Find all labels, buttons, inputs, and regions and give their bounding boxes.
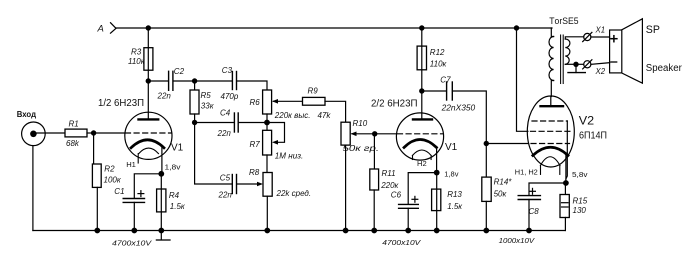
triode V1b plate bar xyxy=(413,118,432,120)
junction secondary ground node xyxy=(573,62,578,67)
svg-text:Speaker: Speaker xyxy=(646,63,683,74)
transformer core xyxy=(561,35,564,84)
wire C3 right to R6 top xyxy=(237,81,267,90)
wire V1b grid feed xyxy=(375,133,397,135)
svg-text:2/2 6Н23П: 2/2 6Н23П xyxy=(371,98,418,109)
svg-text:X1: X1 xyxy=(595,26,606,35)
junction rail R8 xyxy=(264,228,270,234)
wire R3 lead through body xyxy=(147,28,149,81)
pentode V2 g1 dashes xyxy=(531,143,570,145)
junction cathode V1b node xyxy=(434,170,440,176)
wire C2 left xyxy=(148,80,168,82)
potentiometer R10 labels xyxy=(343,119,380,153)
arrowhead R8 wiper xyxy=(257,182,263,187)
ground symbol stage1 xyxy=(156,231,170,241)
svg-text:R10: R10 xyxy=(353,119,368,128)
resistor R13 xyxy=(432,189,441,211)
capacitor C8 plus sign xyxy=(530,188,536,194)
wire X2 to speaker xyxy=(591,63,610,65)
wire C6 bottom xyxy=(407,208,409,230)
wire bottom ground rail xyxy=(33,230,566,232)
svg-text:130: 130 xyxy=(573,206,587,215)
triode V1a grid dashes xyxy=(126,132,172,134)
resistor R15 lead top xyxy=(564,183,566,195)
junction rail R14 xyxy=(483,228,489,234)
resistor R9 xyxy=(303,97,326,105)
resistor R3 xyxy=(144,48,153,70)
wire R7 bottom to R8 top xyxy=(266,155,268,173)
svg-text:22п: 22п xyxy=(218,191,233,200)
connector X2 xyxy=(583,60,592,69)
wire X2 left xyxy=(576,63,584,65)
speaker plus terminal xyxy=(611,36,617,42)
capacitor C4 labels xyxy=(217,109,232,139)
svg-text:R3: R3 xyxy=(131,48,142,57)
capacitor C8 electrolytic xyxy=(518,196,540,200)
resistor R12 labels xyxy=(430,48,448,69)
resistor R4 xyxy=(157,189,166,212)
wire primary top lead xyxy=(551,28,553,37)
wire R12 lead through xyxy=(421,28,423,91)
wire secondary bottom xyxy=(565,63,576,65)
svg-text:V2: V2 xyxy=(579,115,594,127)
svg-text:Вход: Вход xyxy=(17,110,36,119)
arrowhead R10 wiper xyxy=(351,132,357,137)
wire R1 right xyxy=(87,132,94,134)
svg-text:5,8v: 5,8v xyxy=(572,170,588,179)
svg-text:100к: 100к xyxy=(104,176,122,185)
resistor R4 labels xyxy=(169,191,186,211)
triode V1b envelope xyxy=(396,113,443,160)
resistor R14 xyxy=(482,177,491,201)
svg-text:1.5к: 1.5к xyxy=(447,202,463,211)
junction R6 bottom R7 top xyxy=(264,120,270,126)
resistor R2 labels xyxy=(104,164,122,184)
junction rail R13 xyxy=(434,228,440,234)
svg-text:C2: C2 xyxy=(174,67,185,76)
svg-text:R1: R1 xyxy=(69,120,79,129)
potentiometer R7 xyxy=(263,130,272,155)
svg-text:R5: R5 xyxy=(201,91,212,100)
junction anode V1a node xyxy=(146,78,151,83)
wire C1 bottom xyxy=(133,202,135,230)
svg-text:68k: 68k xyxy=(66,139,80,148)
resistor R15 labels xyxy=(573,197,588,216)
resistor R6 lead bottom xyxy=(266,114,268,123)
svg-text:R9: R9 xyxy=(308,87,319,96)
resistor R5 lead bottom xyxy=(194,114,196,123)
resistor R11 xyxy=(370,169,379,190)
junction C4 left node xyxy=(192,120,197,125)
speaker box xyxy=(610,30,622,73)
triode V1a plate bar xyxy=(139,118,159,120)
svg-text:R11: R11 xyxy=(382,169,396,178)
capacitor C3 xyxy=(232,72,236,90)
pentode V2 cathode arc xyxy=(533,147,568,155)
junction anode V1b node xyxy=(419,88,424,93)
junction rail C1 xyxy=(131,228,137,234)
wire R7 wiper loop xyxy=(267,123,285,143)
potentiometer R6 labels xyxy=(250,98,311,120)
resistor R4 lead through xyxy=(160,174,162,231)
capacitor C4 xyxy=(234,113,238,132)
wire R10 bottom xyxy=(345,145,347,230)
svg-text:R15: R15 xyxy=(573,197,588,206)
junction R5 top node xyxy=(192,78,197,83)
pentode V2 envelope xyxy=(527,96,574,167)
resistor R1 xyxy=(65,129,87,137)
triode V1b anode lead xyxy=(421,91,423,119)
node A xyxy=(111,23,117,34)
speaker cone xyxy=(622,19,643,83)
wire primary bottom lead to V2 anode xyxy=(551,81,554,107)
wire R15 bottom xyxy=(564,218,566,231)
junction R3 top xyxy=(146,25,151,30)
svg-text:V1: V1 xyxy=(171,142,184,153)
ground symbol secondary xyxy=(568,64,585,72)
wire cathode to C6 xyxy=(408,173,437,204)
junction cathode V1a node xyxy=(158,171,164,177)
svg-text:R6: R6 xyxy=(250,98,261,107)
svg-text:470p: 470p xyxy=(221,92,239,101)
svg-text:6П14П: 6П14П xyxy=(579,130,607,142)
potentiometer R10 xyxy=(341,122,350,145)
capacitor C2 xyxy=(169,71,173,90)
svg-text:4700x10V: 4700x10V xyxy=(112,238,152,247)
resistor R5 xyxy=(190,90,199,114)
junction R12 top xyxy=(419,25,424,30)
wire g2 feed from rail xyxy=(517,28,528,131)
triode V1a envelope xyxy=(125,112,172,159)
wire R8 bottom xyxy=(266,196,268,230)
svg-text:1,8v: 1,8v xyxy=(444,170,458,179)
wire V2 grid feed xyxy=(486,143,528,145)
potentiometer R8 labels xyxy=(249,168,311,198)
svg-text:C1: C1 xyxy=(114,187,124,196)
svg-text:C6: C6 xyxy=(391,191,402,200)
svg-text:110к: 110к xyxy=(128,57,146,66)
wire R11 lead top xyxy=(373,134,375,169)
triode V1a heater arch xyxy=(139,148,159,154)
wire R10 wiper xyxy=(352,133,375,135)
resistor R11 labels xyxy=(380,169,399,190)
pentode V2 cathode lead xyxy=(565,155,567,183)
capacitor C6 electrolytic xyxy=(399,204,419,208)
input connector Вход xyxy=(22,122,46,146)
svg-text:R7: R7 xyxy=(250,140,261,149)
potentiometer R7 labels xyxy=(250,140,304,160)
wire R11 bottom xyxy=(373,190,375,231)
svg-text:22n: 22n xyxy=(157,91,172,100)
wire cathode to C8 xyxy=(529,183,566,195)
capacitor C6 plus sign xyxy=(412,196,418,202)
svg-text:C3: C3 xyxy=(222,66,233,75)
resistor R13 lead through xyxy=(436,173,438,231)
capacitor C7 xyxy=(447,82,453,100)
pentode V2 g3 dashes xyxy=(532,120,567,122)
pentode V2 plate bar xyxy=(541,105,564,107)
wire V1a grid feed xyxy=(94,132,125,134)
wire C4 left xyxy=(195,122,235,124)
resistor R12 xyxy=(417,46,426,70)
svg-text:A: A xyxy=(97,24,104,35)
svg-text:SP: SP xyxy=(646,24,660,36)
svg-text:22k сред.: 22k сред. xyxy=(276,189,312,198)
resistor R3 labels xyxy=(128,48,146,67)
svg-text:50к гр.: 50к гр. xyxy=(343,144,380,153)
junction V1b grid node xyxy=(372,131,377,136)
svg-text:220к выс.: 220к выс. xyxy=(274,111,311,120)
svg-text:110к: 110к xyxy=(430,60,448,69)
junction g2 feed top xyxy=(514,25,519,30)
wire C2 right xyxy=(173,80,195,82)
wire R9 right to R10 top xyxy=(325,101,346,122)
potentiometer R6 xyxy=(263,90,272,114)
svg-text:V1: V1 xyxy=(445,142,458,153)
wire input to R1 xyxy=(33,132,65,134)
wire R14 bottom xyxy=(485,201,487,230)
svg-text:1000x10V: 1000x10V xyxy=(499,236,535,245)
svg-text:C5: C5 xyxy=(220,174,231,183)
svg-text:C7: C7 xyxy=(440,76,451,85)
svg-text:1,8v: 1,8v xyxy=(165,163,181,172)
transformer secondary winding xyxy=(565,39,570,64)
wire cathode to C1 xyxy=(134,174,161,198)
wire R2 lead top xyxy=(93,133,95,164)
svg-text:C8: C8 xyxy=(529,207,540,216)
capacitor C1 electrolytic xyxy=(123,199,144,203)
junction cathode V2 node xyxy=(563,180,569,186)
resistor R14 labels xyxy=(494,178,513,199)
resistor R9 labels xyxy=(308,87,332,121)
resistor R7 lead top xyxy=(266,123,268,131)
wire C8 bottom xyxy=(528,200,530,231)
junction rail R11 xyxy=(371,228,377,234)
svg-text:Н2: Н2 xyxy=(417,159,427,168)
capacitor C2 labels xyxy=(157,67,185,100)
triode V1a cathode arc xyxy=(131,140,164,148)
svg-text:Н1: Н1 xyxy=(126,160,136,169)
svg-text:4700x10V: 4700x10V xyxy=(382,238,421,247)
junction rail R2 xyxy=(94,228,100,234)
triode V1b heater arch xyxy=(412,150,431,156)
triode V1b heater legs xyxy=(413,156,432,160)
resistor R2 xyxy=(92,164,101,187)
svg-text:50к: 50к xyxy=(494,190,508,199)
resistor R15 inner marks xyxy=(562,203,569,207)
svg-text:Н1, Н2: Н1, Н2 xyxy=(515,168,538,177)
svg-text:ТorSE5: ТorSE5 xyxy=(549,16,578,26)
triode V1a anode lead xyxy=(147,81,149,119)
junction rail C8 xyxy=(526,228,532,234)
pentode V2 heater legs xyxy=(541,166,560,175)
wire input down to ground rail xyxy=(32,146,34,231)
resistor R5 lead top xyxy=(194,81,196,90)
arrowhead R7 wiper xyxy=(272,140,278,145)
transformer primary winding xyxy=(549,37,554,81)
resistor R14 lead top xyxy=(485,144,487,178)
pentode V2 g3 tie to cathode xyxy=(566,121,567,179)
triode V1a heater leg H1 xyxy=(137,154,139,163)
wire R6 wiper to R9 xyxy=(274,100,303,102)
junction V2 grid node xyxy=(484,141,489,146)
capacitor C5 labels xyxy=(218,174,233,200)
wire R2 lead bottom xyxy=(96,187,98,230)
svg-text:R2: R2 xyxy=(104,164,115,173)
connector X1 xyxy=(583,32,592,41)
wire C7 left xyxy=(422,90,447,92)
triode V1b cathode arc xyxy=(404,140,437,148)
arrowhead R6 wiper xyxy=(272,99,278,104)
svg-text:R12: R12 xyxy=(430,48,445,57)
svg-text:22п: 22п xyxy=(217,129,232,138)
pentode V2 g2 dashes xyxy=(531,130,571,132)
resistor R1 labels xyxy=(66,120,80,149)
svg-text:X2: X2 xyxy=(595,67,606,76)
capacitor C3 labels xyxy=(221,66,239,101)
svg-text:1.5к: 1.5к xyxy=(170,202,186,211)
svg-text:47k: 47k xyxy=(318,111,332,120)
wire secondary top to X1 xyxy=(565,37,583,39)
svg-text:1М низ.: 1М низ. xyxy=(275,151,303,160)
svg-text:22nX350: 22nX350 xyxy=(441,103,476,112)
junction rail R10 xyxy=(343,228,349,234)
resistor R15 xyxy=(560,195,569,218)
junction V1a grid node xyxy=(91,130,96,135)
capacitor C1 plus sign xyxy=(138,191,144,197)
triode V1b grid dashes xyxy=(398,133,444,135)
wire X1 to speaker xyxy=(591,36,610,38)
capacitor C7 labels xyxy=(440,76,475,113)
svg-text:R4: R4 xyxy=(169,191,180,200)
triode V1a cathode lead xyxy=(161,147,163,174)
wire C5 bus from C4 node xyxy=(195,123,232,185)
svg-text:1/2 6Н23П: 1/2 6Н23П xyxy=(98,98,144,109)
wire C7 right to V2 grid xyxy=(453,91,487,144)
svg-text:220к: 220к xyxy=(380,181,399,190)
wire C3 left xyxy=(195,80,233,82)
junction rail C6 xyxy=(405,228,411,234)
capacitor C5 xyxy=(232,175,236,194)
svg-text:R8: R8 xyxy=(249,168,260,177)
speaker minus terminal xyxy=(611,61,617,63)
wire C4 right xyxy=(238,122,267,124)
svg-text:R13: R13 xyxy=(447,190,462,199)
triode V1b cathode lead xyxy=(436,147,438,173)
wire C5 to R8 wiper xyxy=(237,183,258,185)
pentode V2 heater arch xyxy=(540,157,560,166)
junction rail R4 xyxy=(158,228,164,234)
svg-text:33к: 33к xyxy=(201,101,215,110)
potentiometer R8 xyxy=(263,173,272,197)
svg-text:C4: C4 xyxy=(220,109,231,118)
resistor R13 labels xyxy=(447,190,463,211)
wire top B+ rail xyxy=(116,27,552,29)
resistor R5 labels xyxy=(201,91,215,110)
svg-text:R14*: R14* xyxy=(494,178,513,187)
